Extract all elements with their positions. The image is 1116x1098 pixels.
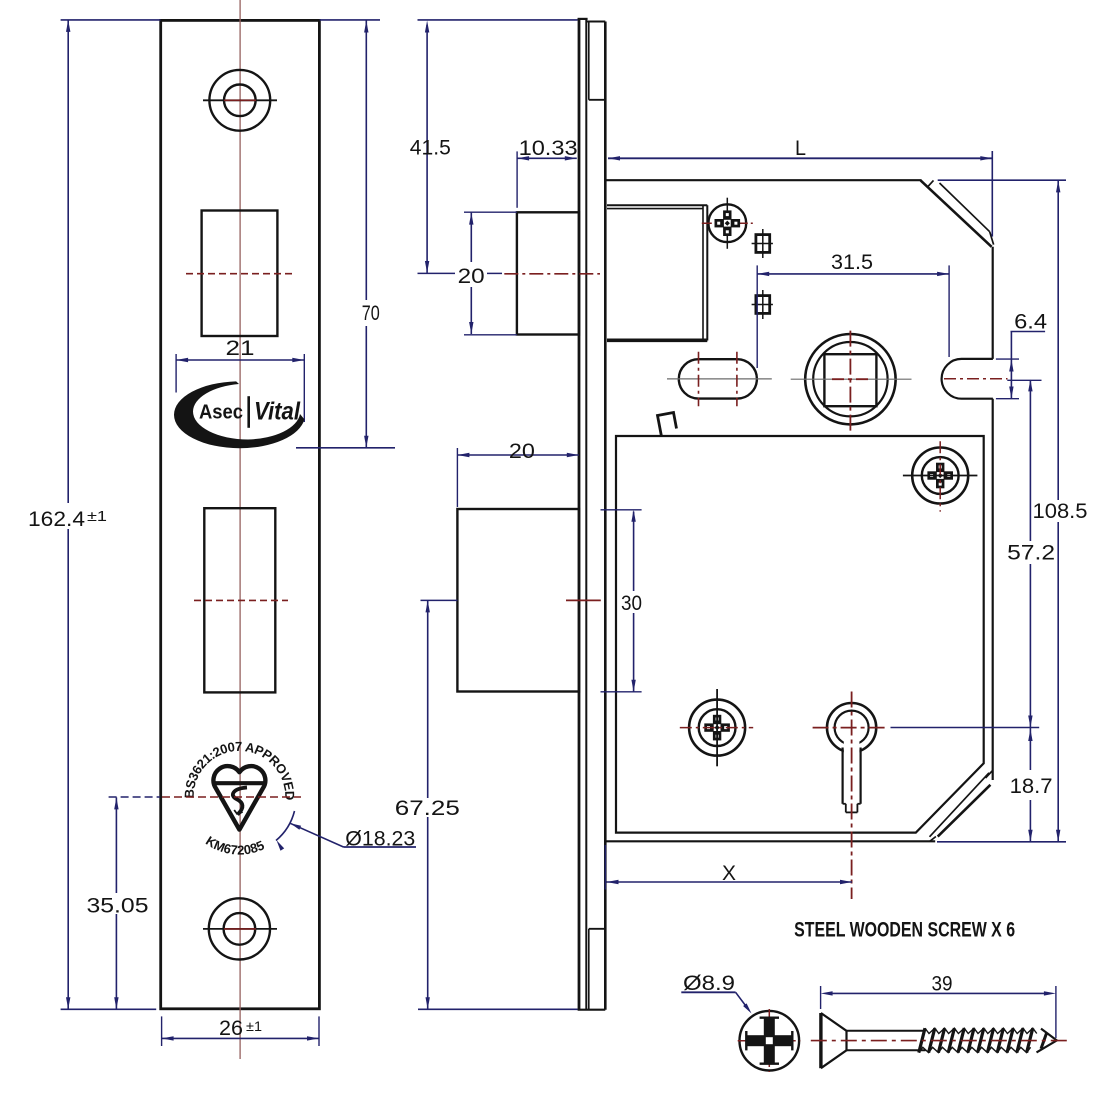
svg-text:31.5: 31.5: [831, 251, 873, 274]
faceplate side view: [578, 18, 606, 1010]
spring clip: [658, 413, 677, 437]
svg-text:67.25: 67.25: [395, 797, 460, 820]
latch bolt side view: [517, 212, 579, 334]
dim 6.4: [996, 310, 1048, 398]
kitemark centerline: [109, 796, 301, 798]
deadbolt side centerline: [421, 599, 601, 601]
svg-text:41.5: 41.5: [410, 137, 451, 160]
dim 20 deadbolt: [457, 440, 578, 507]
adjustment square top: [752, 229, 773, 258]
svg-text:10.33: 10.33: [519, 137, 578, 160]
svg-text:±1: ±1: [87, 508, 107, 525]
faceplate front view: [161, 20, 320, 1008]
forend plate side view: [586, 22, 605, 1010]
dim X: [605, 845, 852, 890]
note steel wooden screw: [794, 918, 1015, 941]
spindle follower: [791, 331, 912, 433]
svg-text:STEEL WOODEN SCREW X 6: STEEL WOODEN SCREW X 6: [794, 918, 1015, 941]
deadbolt cutout centerline: [194, 599, 288, 601]
wood screw side view: [811, 1013, 1072, 1068]
svg-text:20: 20: [509, 440, 535, 463]
dim 31.5: [757, 251, 949, 368]
dim 26: [162, 1016, 319, 1046]
dim L: [608, 137, 992, 237]
dim 41.5: [410, 20, 578, 273]
dim 10.33: [517, 137, 578, 208]
svg-text:70: 70: [362, 302, 380, 325]
dim Ø18.23 leader: [276, 811, 416, 851]
svg-text:Ø18.23: Ø18.23: [345, 828, 415, 851]
svg-text:18.7: 18.7: [1010, 775, 1053, 798]
dim Ø8.9: [681, 972, 751, 1014]
keyhole: [813, 692, 889, 900]
deadbolt side view: [457, 509, 579, 692]
dim 57.2: [891, 379, 1056, 727]
svg-text:162.4: 162.4: [28, 508, 85, 531]
dim 18.7: [1010, 728, 1053, 842]
case cover plate: [616, 436, 984, 833]
faceplate vertical centerline: [239, 0, 241, 1059]
top screw hole: [203, 70, 277, 131]
Asec Vital logo: [174, 381, 304, 448]
dim 20 latch: [458, 212, 517, 335]
svg-text:X: X: [722, 862, 736, 885]
dim 108.5: [937, 180, 1088, 842]
svg-text:Asec: Asec: [199, 402, 243, 424]
svg-text:26: 26: [219, 1017, 243, 1040]
cover screw bottom left: [680, 689, 753, 766]
svg-text:35.05: 35.05: [87, 895, 149, 918]
cover screw top right: [903, 441, 978, 511]
svg-text:21: 21: [226, 337, 255, 360]
latch bolt inside case: [607, 205, 707, 340]
adjustment square bottom: [752, 290, 773, 319]
svg-text:Vital: Vital: [254, 398, 301, 426]
svg-text:108.5: 108.5: [1033, 500, 1088, 523]
screw head front view: [738, 1009, 801, 1072]
latch cutout centerline: [186, 273, 292, 275]
svg-text:L: L: [795, 137, 806, 160]
dim 21: [176, 337, 304, 422]
svg-text:±1: ±1: [246, 1018, 262, 1034]
dim 30 deadbolt: [601, 510, 643, 692]
dim 35.05: [87, 797, 149, 1009]
deadbolt cutout: [204, 508, 275, 692]
top fixing screw: [702, 198, 753, 249]
dim 162.4: [28, 20, 161, 1009]
dim 70: [296, 20, 395, 448]
svg-text:20: 20: [458, 265, 485, 288]
svg-text:39: 39: [932, 973, 953, 996]
dim 67.25: [395, 600, 578, 1009]
lock case outline: [605, 180, 1007, 841]
svg-text:6.4: 6.4: [1014, 310, 1047, 333]
svg-text:57.2: 57.2: [1007, 542, 1055, 565]
handle slot: [667, 352, 772, 407]
latch centerline: [418, 272, 601, 274]
BSI kitemark: [182, 739, 298, 858]
bottom screw hole: [203, 898, 277, 959]
latch cutout: [202, 211, 278, 337]
svg-text:30: 30: [621, 592, 642, 615]
dim 39: [821, 973, 1056, 1038]
